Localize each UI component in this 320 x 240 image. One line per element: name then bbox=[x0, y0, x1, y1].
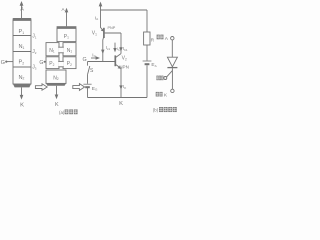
transistor V2 emitter with NPN arrow bbox=[116, 65, 121, 69]
svg-text:P1: P1 bbox=[64, 34, 69, 40]
transistor V2 base wire from gate bbox=[88, 61, 115, 63]
svg-text:K: K bbox=[119, 101, 123, 107]
thyristor symbol anode label 阳极A bbox=[157, 35, 160, 40]
wire thyristor cathode lead bbox=[171, 68, 173, 89]
current arrow IK bbox=[119, 85, 122, 89]
current arrow IG bbox=[91, 57, 98, 59]
svg-text:N2: N2 bbox=[53, 75, 59, 81]
junction J3 divider line bbox=[13, 66, 31, 68]
wire thyristor gate lead bbox=[166, 71, 172, 78]
thyristor symbol anode terminal circle bbox=[171, 37, 174, 40]
wire load branch upper bbox=[146, 10, 148, 32]
layer box P2 left (split structure) bbox=[46, 57, 59, 69]
transistor V2 bar bbox=[114, 55, 116, 66]
svg-text:G: G bbox=[82, 57, 86, 63]
node A arrow (equivalent circuit anode) bbox=[99, 2, 103, 7]
svg-text:(b): (b) bbox=[153, 108, 159, 113]
wire top rail to load branch bbox=[101, 9, 148, 11]
battery EA positive plate bbox=[143, 60, 152, 62]
layer box N1 left (split structure) bbox=[46, 43, 59, 56]
wire bottom rail (cathode) bbox=[88, 97, 148, 99]
anode electrode plate (left structure) bbox=[13, 18, 32, 20]
cathode electrode plate (split structure) bbox=[46, 83, 66, 85]
wire battery to bottom rail bbox=[146, 65, 148, 97]
battery EG negative plate bbox=[85, 86, 90, 88]
wire V1 base to V2 collector bbox=[120, 33, 122, 54]
svg-text:P2: P2 bbox=[67, 61, 72, 67]
svg-text:V2: V2 bbox=[122, 56, 127, 62]
svg-text:N1: N1 bbox=[49, 48, 55, 54]
wire gate lead (left structure) bbox=[6, 61, 13, 63]
svg-text:P2: P2 bbox=[49, 61, 54, 67]
wire V1 collector to V2 base bbox=[102, 37, 105, 62]
svg-text:K: K bbox=[55, 102, 59, 108]
transistor V1 bar bbox=[103, 28, 105, 38]
current arrow Ic1 bbox=[101, 50, 104, 54]
svg-text:Ib1: Ib1 bbox=[123, 46, 128, 52]
current arrow Ib1 bbox=[119, 47, 122, 51]
layer box N2 (split structure bottom) bbox=[46, 70, 66, 83]
wire gate lead (split structure) bbox=[45, 61, 46, 63]
svg-text:G: G bbox=[39, 60, 43, 66]
transistor V1 base wire bbox=[105, 32, 121, 34]
junction J2 divider line bbox=[13, 51, 31, 53]
svg-text:PNP: PNP bbox=[108, 26, 116, 30]
wire switch to battery EG bbox=[87, 75, 89, 84]
gate terminal dot (left structure) bbox=[5, 61, 7, 63]
battery EA negative plate bbox=[145, 63, 150, 65]
big hollow arrow 2 bbox=[73, 84, 85, 91]
thyristor symbol cathode terminal circle bbox=[171, 89, 174, 92]
wire cathode lead (split structure) bbox=[56, 86, 58, 96]
svg-text:EA: EA bbox=[151, 62, 157, 68]
wire thyristor anode lead bbox=[171, 40, 173, 57]
svg-text:EG: EG bbox=[92, 86, 98, 92]
P2 shared-layer bridge bbox=[59, 61, 64, 66]
anode electrode plate (split structure) bbox=[57, 26, 77, 28]
thyristor symbol triangle bbox=[167, 57, 177, 67]
svg-text:J2: J2 bbox=[32, 49, 37, 55]
svg-text:Ic1: Ic1 bbox=[106, 45, 111, 51]
N1 shared-layer bridge bbox=[59, 47, 64, 53]
cathode arrow (left structure) bbox=[20, 95, 24, 100]
transistor V1 emitter with PNP arrow bbox=[101, 27, 104, 30]
thyristor symbol gate terminal circle bbox=[164, 77, 167, 80]
big hollow arrow 1 bbox=[35, 84, 47, 90]
thyristor symbol cathode label 阴极K bbox=[156, 92, 159, 97]
svg-text:G: G bbox=[1, 60, 5, 66]
junction J1 divider line bbox=[13, 35, 31, 37]
cathode arrow (split structure) bbox=[55, 95, 59, 100]
layer box P2 right (split structure) bbox=[63, 57, 76, 69]
svg-text:J3: J3 bbox=[32, 65, 37, 71]
wire resistor to battery bbox=[146, 45, 148, 61]
node A arrow (left structure anode) bbox=[20, 1, 24, 6]
battery EG positive plate bbox=[83, 83, 91, 85]
layer box P1 (split structure top) bbox=[57, 28, 76, 41]
current arrow Ic2 (floating) bbox=[114, 43, 116, 50]
wire gate corner down bbox=[87, 62, 89, 66]
svg-text:IK: IK bbox=[123, 84, 126, 90]
svg-text:J1: J1 bbox=[32, 34, 37, 40]
wire anode lead into V1 emitter bbox=[100, 5, 102, 28]
svg-text:K: K bbox=[20, 103, 24, 109]
wire battery EG to bottom rail bbox=[87, 87, 89, 97]
wire anode lead of 4-layer structure bbox=[21, 4, 23, 19]
thyristor symbol gate label 控制极G bbox=[156, 76, 158, 81]
svg-text:N1: N1 bbox=[67, 48, 73, 54]
transistor V2 collector bbox=[116, 54, 121, 58]
svg-text:(a): (a) bbox=[59, 110, 65, 115]
switch S blade bbox=[88, 66, 90, 75]
4-layer silicon body (left structure) bbox=[13, 20, 31, 84]
cathode electrode plate (left structure) bbox=[13, 84, 31, 87]
layer box N1 right (split structure) bbox=[63, 43, 76, 56]
node A arrow (split structure) bbox=[65, 8, 69, 13]
resistor R bbox=[144, 32, 150, 45]
wire anode lead (split structure) bbox=[66, 11, 68, 26]
wire cathode lead (left structure) bbox=[21, 87, 23, 96]
svg-text:V1: V1 bbox=[92, 31, 97, 37]
thyristor symbol cathode bar bbox=[167, 67, 177, 69]
wire V2 emitter to bottom rail bbox=[120, 68, 122, 97]
gate terminal dot (split structure) bbox=[44, 61, 46, 63]
